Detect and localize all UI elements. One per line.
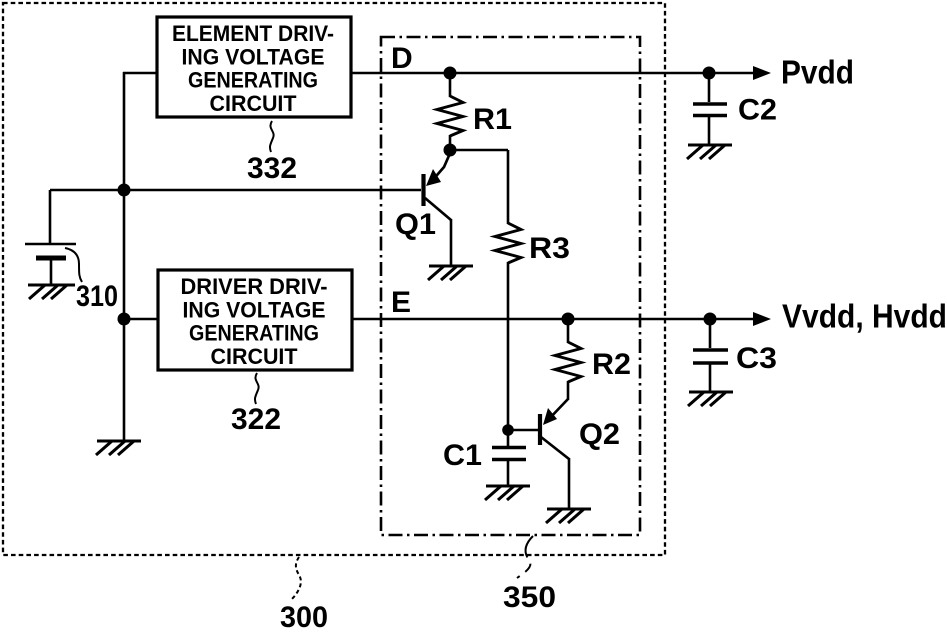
resistor R3: [495, 150, 521, 431]
node dot E/R2: [562, 313, 575, 326]
junction node on rail (base wire): [118, 184, 131, 197]
junction node on rail (E wire): [118, 313, 131, 326]
transistor Q2: [540, 399, 569, 510]
svg-text:350: 350: [503, 581, 556, 614]
svg-text:Vvdd, Hvdd: Vvdd, Hvdd: [782, 298, 947, 335]
wire: left vertical rail: [123, 72, 126, 442]
ground under left rail: [96, 441, 141, 455]
transistor Q1: [424, 151, 452, 267]
capacitor C2: [693, 73, 727, 146]
svg-text:E: E: [391, 286, 411, 319]
svg-text:R3: R3: [529, 232, 570, 265]
svg-text:GENERATING: GENERATING: [189, 321, 319, 346]
svg-text:CIRCUIT: CIRCUIT: [211, 344, 299, 369]
inner dash-dot box 350: [381, 37, 640, 535]
svg-text:R1: R1: [473, 103, 512, 136]
svg-text:Pvdd: Pvdd: [781, 54, 854, 91]
block 332: ELEMENT DRIVING VOLTAGE GENERATING CIRCUIT: [157, 17, 351, 117]
svg-text:310: 310: [76, 280, 118, 313]
svg-text:ING VOLTAGE: ING VOLTAGE: [182, 44, 325, 69]
wire: base wire to Q1: [50, 189, 421, 192]
resistor R2: [555, 319, 581, 400]
svg-text:ELEMENT DRIV-: ELEMENT DRIV-: [172, 21, 334, 46]
wire: rail to driver box input: [124, 318, 158, 321]
wire: node to R3 column: [450, 149, 508, 152]
svg-text:300: 300: [280, 601, 328, 629]
svg-text:D: D: [391, 42, 413, 75]
ground under Q2: [546, 509, 591, 523]
leader squiggle for 332: [270, 121, 274, 152]
svg-text:DRIVER DRIV-: DRIVER DRIV-: [181, 274, 328, 299]
svg-text:332: 332: [247, 152, 297, 185]
block 322: DRIVER DRIVING VOLTAGE GENERATING CIRCUIT: [158, 270, 352, 370]
wire: Q2 base to C1 node: [508, 429, 538, 432]
node dot E/C3: [704, 313, 717, 326]
ground under Q1: [428, 266, 473, 280]
capacitor C3: [693, 319, 728, 393]
svg-text:GENERATING: GENERATING: [188, 68, 318, 93]
wire: driver box output E line: [352, 318, 753, 321]
node dot under R1: [444, 144, 457, 157]
leader squiggle for 300: [291, 557, 301, 600]
svg-text:322: 322: [231, 403, 281, 436]
svg-text:C2: C2: [738, 94, 777, 127]
arrow to Pvdd: [753, 66, 771, 80]
node dot D/C2: [703, 67, 716, 80]
ground under C1: [485, 486, 530, 500]
leader squiggle for 322: [255, 373, 259, 404]
svg-text:Q2: Q2: [579, 418, 620, 451]
node dot C1/base: [502, 424, 514, 436]
svg-text:ING VOLTAGE: ING VOLTAGE: [183, 297, 326, 322]
svg-text:C3: C3: [736, 342, 777, 375]
wire: element box input from left rail: [123, 72, 157, 75]
arrow to Vvdd: [753, 312, 771, 326]
svg-text:R2: R2: [592, 348, 631, 381]
leader squiggle for 350: [517, 536, 533, 578]
battery 310: [25, 244, 76, 286]
node dot D/R1: [444, 67, 457, 80]
capacitor C1: [492, 430, 526, 487]
wire: battery drop: [49, 190, 52, 243]
ground under battery: [28, 285, 75, 299]
ground under C2: [687, 145, 732, 159]
svg-text:Q1: Q1: [395, 208, 436, 241]
wire: element box output to D line: [351, 72, 753, 75]
svg-text:CIRCUIT: CIRCUIT: [210, 91, 298, 116]
svg-text:C1: C1: [443, 439, 482, 472]
leader squiggle for 310: [65, 248, 82, 282]
ground under C3: [688, 392, 733, 406]
outer dashed box 300: [3, 3, 665, 555]
resistor R1: [437, 73, 463, 151]
